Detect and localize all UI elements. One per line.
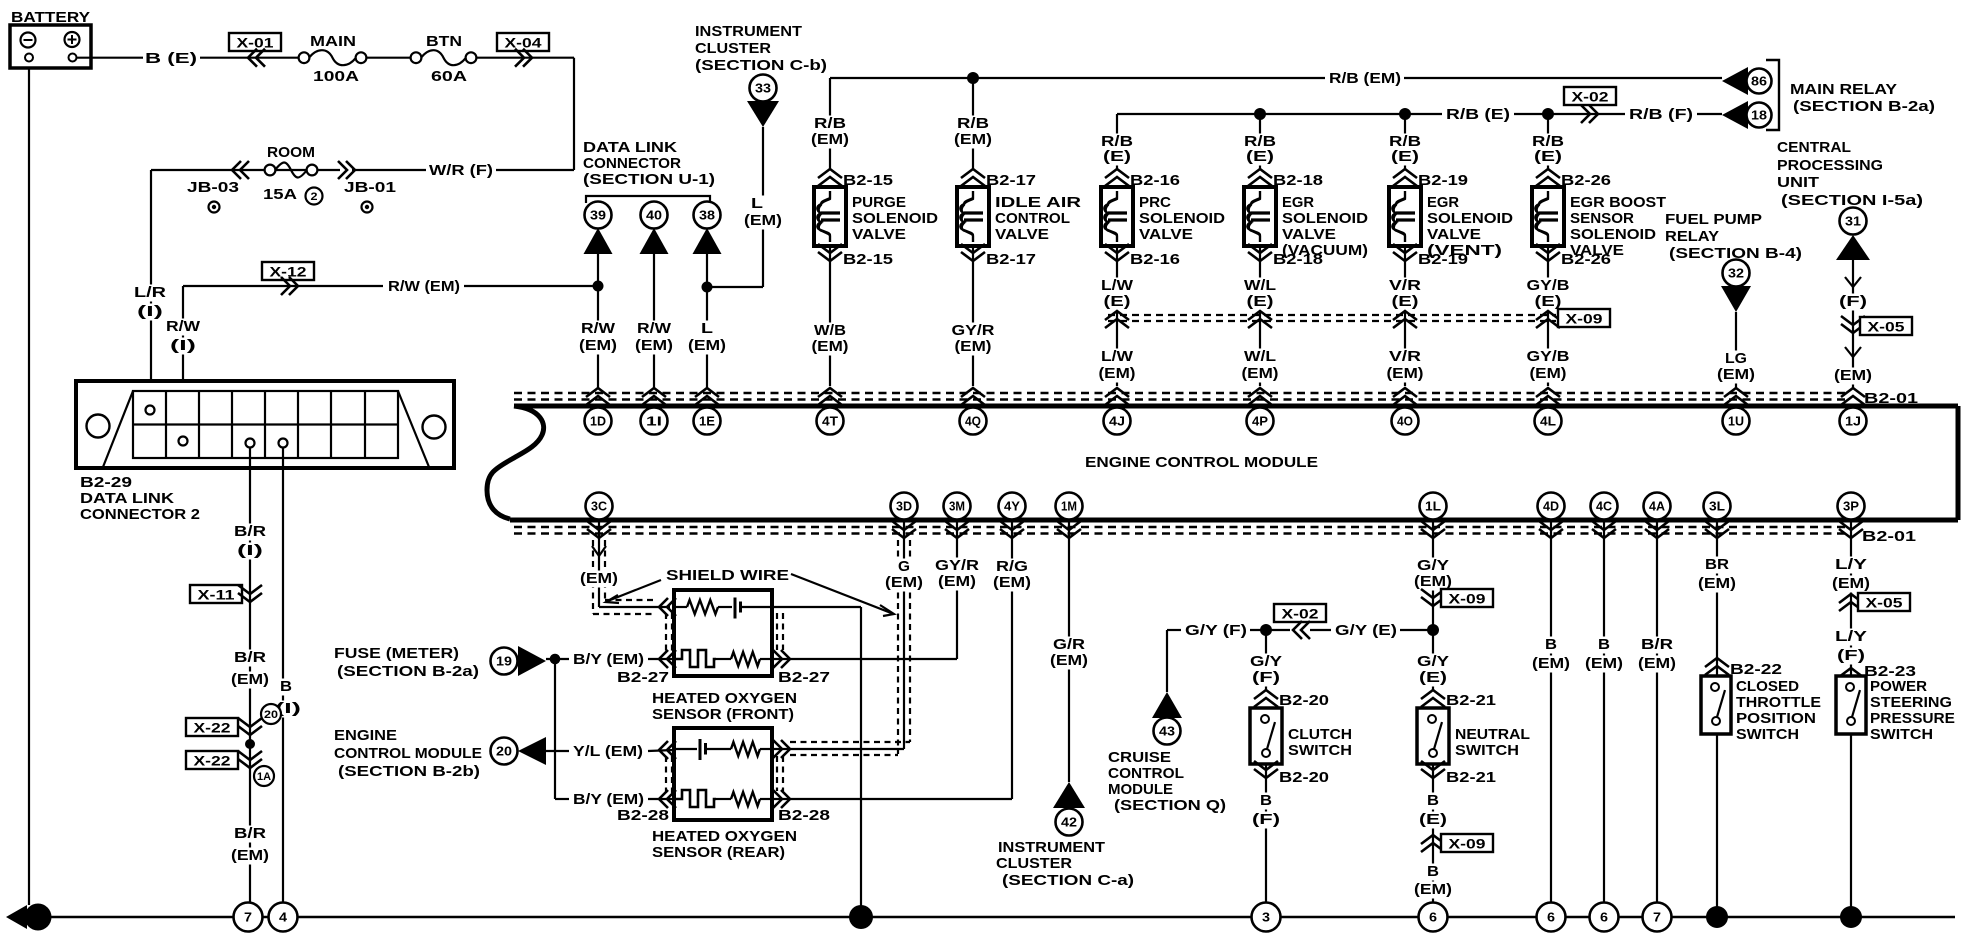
- svg-text:6: 6: [1547, 911, 1555, 925]
- ECM pin 1D: [585, 408, 612, 435]
- svg-text:POWER: POWER: [1870, 678, 1927, 695]
- svg-text:3: 3: [1262, 911, 1270, 925]
- svg-text:X-12: X-12: [270, 265, 307, 280]
- svg-text:(EM): (EM): [1050, 652, 1088, 669]
- svg-text:GY/R: GY/R: [952, 322, 995, 339]
- svg-text:CLUSTER: CLUSTER: [695, 40, 771, 57]
- svg-text:SWITCH: SWITCH: [1870, 726, 1933, 743]
- svg-text:B2-27: B2-27: [778, 669, 830, 686]
- connector X-09 lower on neutral column: [1421, 835, 1445, 852]
- junction dot R/W(EM) at 1D column: [593, 281, 604, 292]
- svg-text:3P: 3P: [1843, 500, 1859, 514]
- svg-text:B2-15: B2-15: [843, 172, 893, 189]
- svg-text:UNIT: UNIT: [1777, 174, 1819, 191]
- shield wire pointer arrow right: [791, 574, 891, 613]
- wire (F) to X-05: [1852, 260, 1854, 320]
- svg-text:1U: 1U: [1728, 415, 1744, 429]
- svg-text:R/B (EM): R/B (EM): [1329, 70, 1401, 87]
- solenoid valve PURGE SOLENOID VALVE: [814, 187, 846, 246]
- connector X-05 bottom: [1839, 594, 1863, 611]
- connector B2-28 left: [659, 741, 676, 759]
- svg-text:(EM): (EM): [231, 671, 269, 688]
- wire R/B drop at x=1548: [1547, 114, 1549, 170]
- ECM pin 4L: [1535, 408, 1562, 435]
- ground point G: [6, 905, 27, 929]
- connector B2-27 right: [773, 650, 790, 668]
- switch CLUTCH SWITCH: [1250, 708, 1282, 764]
- svg-text:DATA LINK: DATA LINK: [80, 490, 174, 507]
- connector X-09 crossing: [1393, 311, 1417, 328]
- svg-text:CRUISE: CRUISE: [1108, 749, 1171, 766]
- svg-text:GY/R: GY/R: [935, 557, 979, 574]
- ground circle 6 pin 4C: [1590, 903, 1619, 932]
- connector B2-22: [1705, 658, 1729, 675]
- svg-text:VALVE: VALVE: [1427, 226, 1481, 243]
- svg-text:G/R: G/R: [1053, 636, 1085, 653]
- ground circle 4 left: [269, 903, 298, 932]
- wire B(E) neutral switch: [1432, 764, 1434, 902]
- svg-text:(EM): (EM): [231, 847, 269, 864]
- svg-text:(EM): (EM): [811, 131, 849, 148]
- wire G(EM) label: [896, 559, 912, 576]
- svg-text:B2-17: B2-17: [986, 172, 1036, 189]
- wire B(E) battery to X-01: [76, 57, 143, 59]
- svg-text:EGR: EGR: [1282, 194, 1314, 211]
- svg-text:7: 7: [1653, 911, 1661, 925]
- svg-text:(E): (E): [1535, 293, 1562, 310]
- wire sensor front output to ground: [772, 606, 861, 608]
- svg-text:G/Y (E): G/Y (E): [1335, 622, 1397, 639]
- wire B/R(EM) pin 4A to ground: [1656, 520, 1658, 902]
- svg-text:B/Y (EM): B/Y (EM): [573, 791, 644, 808]
- svg-text:B/Y (EM): B/Y (EM): [573, 651, 644, 668]
- svg-text:SWITCH: SWITCH: [1736, 726, 1799, 743]
- svg-text:THROTTLE: THROTTLE: [1736, 694, 1821, 711]
- connector X-11: [190, 585, 242, 603]
- wire W/R(F): [496, 169, 574, 171]
- svg-text:G/Y (F): G/Y (F): [1185, 622, 1247, 639]
- ground junction dot power steering switch: [1840, 906, 1862, 928]
- svg-text:4O: 4O: [1397, 415, 1413, 429]
- svg-text:6: 6: [1600, 911, 1608, 925]
- svg-text:CLOSED: CLOSED: [1736, 678, 1799, 695]
- shield dashes along 3D column: [897, 540, 899, 754]
- wire to cruise control module: [1166, 630, 1168, 692]
- power steering pressure switch column: [1850, 520, 1852, 917]
- svg-text:(EM): (EM): [885, 574, 923, 591]
- connector X-02 top: [1564, 87, 1616, 105]
- svg-text:CONNECTOR 2: CONNECTOR 2: [80, 506, 200, 523]
- wire R/B(E) horizontal: [1117, 113, 1442, 115]
- ground junction dot oxygen sensor return: [849, 905, 873, 929]
- svg-text:NEUTRAL: NEUTRAL: [1455, 726, 1530, 743]
- wire R/B drop at x=1117: [1116, 114, 1118, 170]
- ECM pin 4T: [817, 408, 844, 435]
- svg-text:(EM): (EM): [1532, 655, 1570, 672]
- svg-text:(EM): (EM): [580, 570, 618, 587]
- svg-text:(SECTION C-b): (SECTION C-b): [695, 57, 827, 74]
- svg-text:(E): (E): [1392, 293, 1419, 310]
- svg-text:B2-28: B2-28: [617, 807, 669, 824]
- svg-text:1E: 1E: [699, 415, 715, 429]
- solenoid valve EGR SOLENOID VALVE (VACUUM): [1244, 187, 1276, 246]
- svg-text:(F): (F): [1252, 811, 1280, 828]
- svg-text:JB-01: JB-01: [344, 179, 396, 196]
- svg-text:GY/B: GY/B: [1527, 277, 1570, 294]
- svg-text:(E): (E): [1103, 148, 1131, 165]
- svg-text:(SECTION U-1): (SECTION U-1): [583, 171, 715, 188]
- ECM pin 3P: [1838, 493, 1865, 520]
- svg-text:R/B (E): R/B (E): [1446, 106, 1510, 123]
- svg-text:B2-19: B2-19: [1418, 251, 1468, 268]
- svg-text:SENSOR (REAR): SENSOR (REAR): [652, 844, 785, 861]
- svg-text:B2-21: B2-21: [1446, 692, 1496, 709]
- svg-text:INSTRUMENT: INSTRUMENT: [998, 839, 1105, 856]
- svg-text:(EM): (EM): [954, 131, 992, 148]
- battery: [10, 25, 91, 68]
- svg-text:HEATED OXYGEN: HEATED OXYGEN: [652, 828, 797, 845]
- svg-text:L/Y: L/Y: [1835, 556, 1867, 573]
- engine control module box: [514, 404, 1958, 409]
- svg-text:(SECTION Q): (SECTION Q): [1114, 797, 1226, 814]
- ECM pin 4Q: [960, 408, 987, 435]
- svg-text:R/W: R/W: [637, 320, 672, 337]
- svg-text:G: G: [33, 909, 43, 925]
- svg-text:15A: 15A: [263, 186, 297, 203]
- svg-text:SHIELD WIRE: SHIELD WIRE: [666, 567, 789, 584]
- svg-text:4P: 4P: [1252, 415, 1268, 429]
- ECM pin 1E: [694, 408, 721, 435]
- connector X-01: [229, 33, 281, 51]
- svg-text:MAIN RELAY: MAIN RELAY: [1790, 81, 1897, 98]
- ground junction dot closed throttle switch: [1706, 906, 1728, 928]
- wire G/Y(F) horizontal: [1167, 629, 1181, 631]
- svg-text:R/B: R/B: [814, 115, 846, 132]
- svg-text:X-05: X-05: [1868, 320, 1906, 335]
- svg-text:(F): (F): [1252, 669, 1280, 686]
- svg-text:B: B: [1260, 792, 1272, 809]
- svg-text:19: 19: [496, 655, 512, 669]
- svg-text:(I): (I): [170, 337, 196, 354]
- neutral switch column: [1432, 520, 1434, 690]
- svg-text:B2-21: B2-21: [1446, 769, 1496, 786]
- svg-text:RELAY: RELAY: [1665, 228, 1719, 245]
- svg-text:(EM): (EM): [1099, 365, 1136, 382]
- svg-text:SOLENOID: SOLENOID: [1570, 226, 1656, 243]
- connector B2 B2-15 upper: [818, 169, 842, 186]
- svg-text:(EM): (EM): [938, 573, 976, 590]
- connector X-02 bottom: [1274, 604, 1326, 622]
- svg-text:1I: 1I: [646, 415, 662, 429]
- shield wire pointer arrow left: [609, 580, 661, 601]
- solenoid valve PRC SOLENOID VALVE: [1101, 187, 1133, 246]
- svg-text:(EM): (EM): [1414, 881, 1452, 898]
- svg-text:40: 40: [646, 209, 662, 223]
- connector B2-23: [1839, 668, 1863, 685]
- ground bus wire: [51, 916, 1955, 919]
- wire R/B drop at x=973: [972, 78, 974, 170]
- svg-text:(EM): (EM): [812, 338, 849, 355]
- svg-text:B2-16: B2-16: [1130, 172, 1180, 189]
- svg-text:B: B: [280, 678, 292, 695]
- svg-text:PRC: PRC: [1139, 194, 1171, 211]
- connector B2-01 dashed lines above top bus: [514, 392, 1850, 394]
- svg-text:(SECTION B-2b): (SECTION B-2b): [338, 763, 480, 780]
- ECM pin 1J: [1840, 408, 1867, 435]
- svg-text:B/R: B/R: [234, 825, 266, 842]
- wire GY/B(EM) label: [1524, 349, 1571, 366]
- svg-text:L/R: L/R: [134, 284, 166, 301]
- svg-text:B/R: B/R: [1641, 636, 1673, 653]
- power steering pressure switch: [1836, 676, 1866, 734]
- svg-text:(EM): (EM): [1414, 573, 1452, 590]
- svg-text:(E): (E): [1246, 148, 1274, 165]
- connector B2-28 right: [773, 740, 790, 758]
- ground circle 7 left: [234, 903, 263, 932]
- shield dashes beside front sensor: [665, 613, 667, 652]
- svg-text:(EM): (EM): [1387, 365, 1424, 382]
- svg-text:FUSE (METER): FUSE (METER): [334, 645, 459, 662]
- svg-text:B2-29: B2-29: [80, 474, 132, 491]
- svg-text:7: 7: [244, 911, 252, 925]
- svg-text:4Y: 4Y: [1004, 500, 1021, 514]
- svg-text:X-02: X-02: [1572, 90, 1609, 105]
- cruise control module arrow 43: [1152, 692, 1182, 718]
- svg-text:20: 20: [496, 745, 512, 759]
- connector B2-01 dashed lines below bottom bus: [514, 526, 1845, 528]
- ground circle 7 pin 4A: [1643, 903, 1672, 932]
- connector ref 38 arrow to data link connector: [694, 202, 721, 229]
- svg-text:B2-17: B2-17: [986, 251, 1036, 268]
- wire W/L(E) label: [1242, 278, 1278, 295]
- svg-text:(EM): (EM): [579, 337, 617, 354]
- svg-text:X-11: X-11: [198, 588, 236, 603]
- svg-text:VALVE: VALVE: [1139, 226, 1193, 243]
- svg-text:PURGE: PURGE: [852, 194, 906, 211]
- connector B2 B2-19 lower: [1393, 244, 1417, 261]
- solenoid valve IDLE AIR CONTROL VALVE: [957, 187, 989, 246]
- svg-text:CONTROL MODULE: CONTROL MODULE: [334, 745, 482, 762]
- ECM pin 4A: [1644, 493, 1671, 520]
- svg-text:R/W (EM): R/W (EM): [388, 278, 460, 295]
- svg-text:(EM): (EM): [993, 574, 1031, 591]
- svg-text:(EM): (EM): [1834, 367, 1872, 384]
- connector X-09 crossing: [1105, 311, 1129, 328]
- svg-text:43: 43: [1159, 725, 1175, 739]
- wire 3C shielded to heated oxygen sensor front: [598, 520, 600, 607]
- ECM pin 1I: [641, 408, 668, 435]
- svg-text:B2-28: B2-28: [778, 807, 830, 824]
- svg-text:X-22: X-22: [194, 754, 231, 769]
- svg-text:B/R: B/R: [234, 523, 266, 540]
- svg-text:SOLENOID: SOLENOID: [1427, 210, 1513, 227]
- wire B(F) clutch to ground: [1265, 764, 1267, 902]
- svg-text:4L: 4L: [1540, 415, 1556, 429]
- svg-text:INSTRUMENT: INSTRUMENT: [695, 23, 802, 40]
- wire V/R(EM) label: [1387, 349, 1423, 366]
- svg-text:B2-27: B2-27: [617, 669, 669, 686]
- connector X-09 on 1L column: [1421, 589, 1445, 606]
- svg-text:86: 86: [1751, 75, 1767, 89]
- connector ref 32 arrow fuel pump relay: [1723, 260, 1750, 287]
- svg-text:GY/B: GY/B: [1527, 348, 1570, 365]
- svg-text:(EM): (EM): [955, 338, 992, 355]
- connector B2 B2-26 upper: [1536, 169, 1560, 186]
- wire R/W(I) down to data link connector 2: [182, 286, 184, 433]
- svg-text:4C: 4C: [1596, 500, 1612, 514]
- svg-text:(EM): (EM): [1530, 365, 1567, 382]
- ECM pin 4J: [1104, 408, 1131, 435]
- ECM pin 4C: [1591, 493, 1618, 520]
- svg-text:60A: 60A: [431, 68, 467, 85]
- heater element rear: [674, 790, 716, 807]
- ECM pin 3C: [586, 493, 613, 520]
- svg-text:3M: 3M: [949, 500, 965, 514]
- connector X-09 dashed line: [1108, 314, 1556, 316]
- closed throttle position switch column: [1716, 520, 1718, 917]
- connector B2-27 left: [659, 598, 676, 616]
- svg-text:W/L: W/L: [1244, 348, 1276, 365]
- svg-text:L: L: [701, 320, 713, 337]
- svg-text:L/W: L/W: [1101, 348, 1134, 365]
- wire G/R from pin 1M to instrument cluster: [1068, 520, 1070, 782]
- svg-text:W/R (F): W/R (F): [429, 162, 493, 179]
- wire B/Y feed down to rear heater: [554, 659, 556, 799]
- svg-text:4J: 4J: [1109, 415, 1125, 429]
- connector B2 B2-21 upper: [1421, 690, 1445, 707]
- svg-text:4T: 4T: [822, 415, 838, 429]
- svg-text:X-02: X-02: [1282, 607, 1319, 622]
- svg-text:B2-18: B2-18: [1273, 251, 1323, 268]
- heated oxygen sensor (front): [674, 590, 772, 676]
- connector B2 B2-15 lower: [818, 244, 842, 261]
- svg-text:1L: 1L: [1425, 500, 1441, 514]
- svg-text:4D: 4D: [1543, 500, 1559, 514]
- wire (EM) to pin 1J: [1852, 320, 1854, 388]
- svg-text:VALVE: VALVE: [995, 226, 1049, 243]
- wire B/R(EM): [232, 650, 268, 667]
- svg-text:CLUSTER: CLUSTER: [996, 855, 1072, 872]
- svg-text:SWITCH: SWITCH: [1455, 742, 1519, 759]
- fuse ROOM 15A: [265, 165, 276, 176]
- svg-text:MODULE: MODULE: [1108, 781, 1173, 798]
- svg-text:POSITION: POSITION: [1736, 710, 1816, 727]
- svg-text:4A: 4A: [1649, 500, 1665, 514]
- svg-text:(EM): (EM): [1717, 366, 1755, 383]
- svg-text:R/W: R/W: [166, 318, 201, 335]
- svg-text:B2-19: B2-19: [1418, 172, 1468, 189]
- svg-text:B2-01: B2-01: [1864, 390, 1918, 407]
- sensor element capacitor rear: [674, 748, 697, 750]
- ECM pin 4O: [1392, 408, 1419, 435]
- svg-text:B2-26: B2-26: [1561, 172, 1611, 189]
- svg-text:CLUTCH: CLUTCH: [1288, 726, 1352, 743]
- pin B/R in DLC2: [246, 439, 255, 448]
- svg-text:L/W: L/W: [1101, 277, 1134, 294]
- ground circle 6 neutral switch: [1419, 903, 1448, 932]
- ECM pin 3L: [1704, 493, 1731, 520]
- svg-text:(EM): (EM): [744, 212, 782, 229]
- svg-text:B2-01: B2-01: [1862, 528, 1916, 545]
- junction dot R/B(EM) at idle air column: [967, 72, 979, 84]
- svg-text:DATA LINK: DATA LINK: [583, 139, 677, 156]
- svg-text:3C: 3C: [591, 500, 607, 514]
- wire L/W(EM) label: [1099, 349, 1135, 366]
- fuse MAIN 100A: [299, 52, 310, 63]
- svg-text:(SECTION B-2a): (SECTION B-2a): [337, 663, 479, 680]
- svg-text:X-01: X-01: [237, 36, 275, 51]
- svg-text:BTN: BTN: [426, 33, 462, 50]
- wire B/Y(EM) to front heater: [546, 658, 569, 660]
- connector X-05 top: [1841, 316, 1865, 333]
- connector B2 B2-20 lower: [1254, 761, 1278, 778]
- svg-text:18: 18: [1751, 109, 1767, 123]
- svg-text:20: 20: [264, 709, 278, 721]
- wire W/L(EM) label: [1242, 349, 1278, 366]
- svg-text:1D: 1D: [590, 415, 606, 429]
- svg-text:L: L: [751, 195, 763, 212]
- bracket over data link connector refs: [586, 196, 710, 203]
- svg-text:X-09: X-09: [1566, 312, 1603, 327]
- svg-text:CENTRAL: CENTRAL: [1777, 139, 1851, 156]
- connector B2 B2-26 lower: [1536, 244, 1560, 261]
- connector B2 B2-20 upper: [1254, 690, 1278, 707]
- wire V/R(E) label: [1387, 278, 1423, 295]
- svg-text:STEERING: STEERING: [1870, 694, 1952, 711]
- ECM pin 4D: [1538, 493, 1565, 520]
- svg-text:BR: BR: [1705, 556, 1729, 573]
- svg-text:ROOM: ROOM: [267, 144, 315, 161]
- svg-text:1J: 1J: [1845, 415, 1861, 429]
- solenoid valve EGR BOOST SENSOR SOLENOID VALVE: [1532, 187, 1564, 246]
- svg-text:SWITCH: SWITCH: [1288, 742, 1352, 759]
- svg-text:VALVE: VALVE: [1282, 226, 1336, 243]
- svg-text:4: 4: [279, 911, 287, 925]
- connector ref 31 arrow central processing unit: [1840, 208, 1867, 235]
- connector B2 B2-17 upper: [961, 169, 985, 186]
- svg-text:B2-22: B2-22: [1730, 661, 1782, 678]
- connector X-12: [262, 262, 314, 280]
- wire L(EM) from instrument cluster: [762, 127, 764, 287]
- svg-text:JB-03: JB-03: [187, 179, 239, 196]
- svg-text:G/Y: G/Y: [1417, 653, 1449, 670]
- fuse BTN 60A: [411, 52, 422, 63]
- svg-text:B2-20: B2-20: [1279, 692, 1329, 709]
- svg-text:(F): (F): [1837, 647, 1865, 664]
- svg-text:1M: 1M: [1061, 500, 1077, 514]
- connector B2 B2-16 lower: [1105, 244, 1129, 261]
- wire L/R(I) down to data link connector 2: [150, 170, 152, 402]
- svg-text:B2-26: B2-26: [1561, 251, 1611, 268]
- pin B in DLC2: [279, 439, 288, 448]
- svg-text:4Q: 4Q: [965, 415, 981, 429]
- wire GY/B(E) label: [1524, 278, 1571, 295]
- svg-text:SOLENOID: SOLENOID: [1282, 210, 1368, 227]
- svg-text:(I): (I): [137, 303, 163, 320]
- ground circle 3 clutch switch: [1252, 903, 1281, 932]
- junction dot G/Y at neutral column: [1427, 624, 1439, 636]
- svg-text:33: 33: [755, 82, 771, 96]
- connector B2 B2-16 upper: [1105, 169, 1129, 186]
- heater resistor front: [731, 652, 760, 666]
- svg-text:2: 2: [311, 191, 318, 203]
- svg-text:R/G: R/G: [996, 558, 1028, 575]
- svg-text:Y/L (EM): Y/L (EM): [573, 743, 643, 760]
- wire L(EM) column 1E label: [699, 321, 715, 338]
- wire R/B drop at x=1405: [1404, 114, 1406, 170]
- svg-text:PROCESSING: PROCESSING: [1777, 157, 1883, 174]
- wire R/B drop at x=1260: [1259, 114, 1261, 170]
